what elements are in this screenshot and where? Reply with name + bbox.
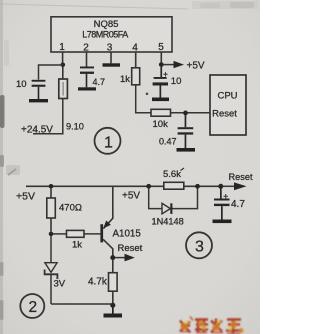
svg-text:9.10: 9.10	[66, 122, 84, 132]
svg-text:3: 3	[195, 239, 204, 256]
node ground junction	[110, 303, 115, 308]
Reset arrow mid	[115, 243, 143, 262]
resistor R2 10k	[151, 109, 171, 116]
svg-text:1N4148: 1N4148	[152, 217, 184, 227]
node reset junction	[183, 111, 188, 116]
ground under C4	[152, 98, 169, 102]
svg-text:Reset: Reset	[229, 172, 253, 182]
ground under C5	[213, 220, 232, 224]
svg-text:10k: 10k	[153, 119, 169, 130]
svg-text:A1015: A1015	[113, 229, 142, 240]
svg-text:+5V: +5V	[122, 191, 140, 202]
capacitor C5 4.7	[214, 188, 230, 220]
wire +24.5V input	[33, 99, 63, 134]
ground under C1	[29, 99, 48, 102]
svg-text:10: 10	[171, 76, 182, 87]
svg-text:10: 10	[16, 79, 27, 90]
capacitor C4 10 polarized	[153, 67, 168, 98]
wire pin3 down	[110, 52, 112, 64]
node reset out	[218, 184, 223, 189]
resistor R1 1k	[132, 68, 140, 85]
ground bottom	[104, 307, 123, 318]
svg-text:Reset: Reset	[118, 243, 143, 254]
node rail/470	[49, 184, 54, 189]
+5V rail	[26, 185, 221, 187]
CPU box	[210, 75, 246, 135]
red watermark bottom	[180, 317, 244, 334]
svg-text:4.7k: 4.7k	[88, 277, 108, 288]
regulator IC U1 box NQ85 L78MR05FA	[51, 17, 172, 52]
wire to C1	[39, 65, 63, 80]
+5V arrow top	[164, 61, 205, 72]
capacitor C3 0.47	[178, 115, 194, 148]
svg-text:Reset: Reset	[212, 109, 237, 120]
node pin1 junction	[61, 63, 66, 68]
zener diode D1 3V	[45, 236, 66, 304]
svg-text:+24.5V: +24.5V	[21, 125, 53, 136]
svg-text:1: 1	[59, 42, 65, 53]
capacitor C1 10	[32, 80, 46, 99]
svg-text:NQ85: NQ85	[94, 19, 119, 30]
diode D2 1N4148 loop	[149, 188, 198, 227]
svg-text:L78MR05FA: L78MR05FA	[82, 30, 128, 40]
circle label 2	[20, 294, 44, 318]
wire R1 to R2	[136, 85, 151, 113]
Reset arrow right	[222, 172, 253, 190]
svg-text:2: 2	[28, 299, 37, 316]
node base junction	[49, 232, 54, 237]
node 5.6k left	[146, 184, 151, 189]
capacitor C2 4.7	[80, 67, 94, 88]
svg-text:+5V: +5V	[16, 191, 35, 203]
wire pin1 down	[62, 52, 64, 65]
node pin5 junction	[159, 62, 164, 67]
resistor R3 470ohm	[47, 188, 82, 232]
svg-text:4.7: 4.7	[93, 77, 106, 87]
pin numbers 1-5	[59, 42, 164, 54]
resistor R6 5.6k	[163, 168, 184, 189]
wire pin5 down	[160, 52, 162, 65]
svg-text:+5V: +5V	[187, 61, 205, 72]
ground under C2	[78, 87, 96, 90]
node 5.6k right	[195, 184, 200, 189]
svg-text:CPU: CPU	[217, 91, 237, 102]
wire pin4 down	[135, 52, 137, 68]
svg-text:0.47: 0.47	[159, 137, 177, 147]
svg-text:3: 3	[107, 43, 113, 54]
circle label 3	[186, 232, 212, 258]
svg-text:1k: 1k	[72, 240, 82, 251]
ground under C3	[177, 148, 196, 152]
svg-text:5: 5	[158, 42, 164, 53]
resistor R5 4.7k	[88, 260, 117, 303]
wire pin2 down	[86, 52, 88, 67]
ink dot artifact	[146, 93, 149, 96]
transistor Q1 A1015	[100, 186, 141, 255]
svg-text:4.7: 4.7	[231, 199, 245, 210]
ground pin3	[103, 63, 121, 66]
svg-text:1: 1	[104, 135, 113, 152]
svg-text:3V: 3V	[54, 279, 66, 290]
svg-text:5.6k: 5.6k	[163, 169, 181, 180]
node collector junction	[110, 255, 115, 260]
wire R2 to CPU	[171, 112, 211, 114]
resistor R4 1k	[53, 230, 100, 250]
svg-text:1k: 1k	[120, 74, 130, 85]
wire bottom ground run	[51, 303, 111, 305]
fuse F1	[59, 67, 68, 99]
svg-text:470Ω: 470Ω	[59, 203, 82, 214]
circle label 1	[95, 128, 121, 154]
